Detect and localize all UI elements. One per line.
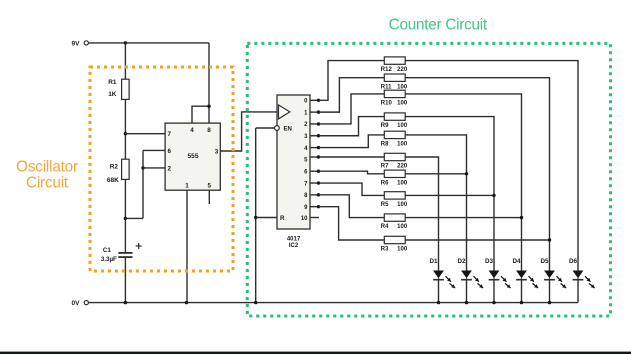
svg-text:Oscillator: Oscillator [16, 159, 78, 176]
wire output 1 to R11 [319, 78, 385, 112]
junction R4/D4 [520, 216, 523, 219]
wire pin1 to 0V [186, 190, 188, 302]
LED D5 [540, 258, 566, 302]
svg-text:220: 220 [397, 67, 408, 73]
wire pin6 [143, 149, 165, 151]
wire pin3 to clock [220, 112, 277, 151]
svg-text:2: 2 [168, 165, 172, 172]
junction 0V D2 [465, 301, 468, 304]
svg-text:100: 100 [397, 180, 408, 186]
LED D3 [485, 258, 511, 302]
wire R4 join [405, 217, 521, 219]
wire 0V rail [88, 302, 578, 304]
label Oscillator Circuit [16, 159, 78, 192]
pin 0 stub 4017 [304, 99, 318, 105]
junction EN/R [254, 216, 257, 219]
wire R3 join [405, 239, 549, 241]
svg-text:1K: 1K [108, 91, 117, 98]
svg-text:Counter Circuit: Counter Circuit [389, 17, 488, 34]
junction output 8 [317, 193, 320, 196]
wire pin5 stub [208, 190, 210, 204]
svg-text:D6: D6 [569, 258, 578, 265]
svg-text:R3: R3 [381, 247, 389, 253]
node 0V terminal [72, 300, 89, 307]
junction 0V pin1 [185, 301, 188, 304]
junction output 1 [317, 110, 320, 113]
wire feedback vertical [142, 150, 144, 218]
svg-text:EN: EN [284, 127, 292, 133]
svg-text:IC2: IC2 [289, 243, 299, 249]
junction pin2 node [141, 166, 144, 169]
svg-text:R10: R10 [381, 101, 393, 107]
svg-text:0V: 0V [72, 300, 81, 307]
svg-text:6: 6 [168, 148, 172, 155]
svg-text:4017: 4017 [287, 236, 301, 242]
page footer bar [0, 352, 631, 354]
wire R5 join [405, 194, 494, 196]
pin 6 stub 4017 [304, 170, 318, 176]
svg-text:555: 555 [187, 153, 198, 160]
resistor R11 [381, 74, 408, 90]
wire EN/R to 0V [255, 128, 257, 303]
resistor R6 [381, 170, 408, 186]
LED D4 [512, 258, 538, 302]
wire output 3 to R9 [319, 117, 385, 136]
wire C1 to 0V [124, 257, 126, 303]
svg-text:100: 100 [397, 84, 408, 90]
junction output 4 [317, 146, 320, 149]
resistor R4 [381, 214, 408, 230]
wire 9V to R1 [124, 43, 126, 79]
svg-text:8: 8 [207, 127, 211, 134]
wire pin2 [143, 167, 165, 169]
junction 0V C1 [124, 301, 127, 304]
resistor R7 [381, 153, 408, 169]
svg-text:9V: 9V [72, 40, 81, 47]
wire pin10 stub [301, 216, 319, 222]
resistor R1 [108, 79, 129, 100]
junction output 0 [317, 99, 320, 102]
svg-text:D1: D1 [429, 258, 438, 265]
LED D6 [569, 258, 595, 302]
pin 7 stub 4017 [304, 181, 318, 187]
junction R6/D2 [465, 172, 468, 175]
junction R2/C1/feedback [124, 217, 127, 220]
resistor R9 [381, 113, 408, 129]
wire output 5 to R7 [319, 156, 385, 158]
junction pin7 node [124, 132, 127, 135]
op-amp U1 555 timer [165, 123, 220, 190]
wire R6 join [405, 173, 466, 175]
EN inverter bubble [275, 126, 280, 131]
pin 1 stub 4017 [304, 110, 318, 116]
svg-text:Circuit: Circuit [26, 175, 69, 192]
junction output 6 [317, 170, 320, 173]
junction R3/D5 [548, 238, 551, 241]
wire R11 to D5 column [405, 78, 549, 271]
pin 5 stub 4017 [304, 157, 318, 164]
junction 0V ENR [254, 301, 257, 304]
svg-text:D2: D2 [457, 258, 466, 265]
junction R5/D3 [492, 194, 495, 197]
wire R12 to D6 column [405, 61, 578, 271]
svg-text:3.3µF: 3.3µF [101, 256, 117, 263]
clock input triangle [279, 105, 290, 119]
wire 9V rail [88, 42, 209, 44]
svg-text:R9: R9 [381, 123, 389, 129]
pin 3 stub 4017 [304, 134, 318, 140]
wire R7 to D1 column [405, 157, 438, 271]
junction 0V D4 [520, 301, 523, 304]
wire R8 to D2 column [405, 135, 466, 271]
wire R1 to R2 [124, 99, 126, 159]
svg-text:7: 7 [168, 131, 172, 138]
wire output 4 to R8 [319, 135, 385, 148]
svg-text:D5: D5 [540, 258, 549, 265]
wire R2 to C1 [124, 179, 126, 252]
wire output 9 to R3 [319, 207, 385, 240]
resistor R3 [381, 236, 408, 252]
svg-text:100: 100 [397, 101, 408, 107]
junction 9V/R1 [124, 41, 127, 44]
wire output 8 to R4 [319, 195, 385, 218]
wire EN [256, 127, 275, 129]
counter circuit boundary [247, 43, 610, 316]
capacitor C1 [101, 243, 142, 263]
wire output 6 to R6 [319, 171, 385, 174]
svg-text:R11: R11 [381, 84, 392, 90]
wire 555 pin8 drop [208, 43, 210, 123]
svg-text:3: 3 [215, 149, 219, 156]
wire R10 to D4 column [405, 94, 521, 271]
oscillator circuit boundary [90, 67, 233, 271]
svg-text:100: 100 [397, 142, 408, 148]
resistor R10 [381, 90, 408, 106]
svg-text:R5: R5 [381, 202, 389, 208]
svg-text:C1: C1 [103, 247, 111, 254]
svg-text:D3: D3 [485, 258, 494, 265]
wire R9 to D3 column [405, 117, 494, 271]
svg-text:R2: R2 [110, 163, 119, 170]
junction output 5 [317, 155, 320, 158]
svg-text:100: 100 [397, 224, 408, 230]
svg-text:D4: D4 [512, 258, 521, 265]
junction output 7 [317, 181, 320, 184]
LED D2 [457, 258, 483, 302]
wire pin4-pin8 link [192, 106, 209, 123]
wire feedback horizontal [125, 217, 143, 219]
svg-text:100: 100 [397, 202, 408, 208]
svg-text:R12: R12 [381, 67, 393, 73]
pin 8 stub 4017 [304, 193, 318, 199]
wire output 0 to R12 [319, 61, 385, 101]
pin 2 stub 4017 [304, 122, 318, 128]
resistor R2 [107, 159, 129, 184]
junction output 3 [317, 134, 320, 137]
svg-text:68K: 68K [107, 177, 119, 184]
label Counter Circuit [389, 17, 488, 34]
svg-text:R4: R4 [381, 224, 389, 230]
svg-text:1: 1 [185, 183, 189, 190]
junction output 9 [317, 205, 320, 208]
junction output 2 [317, 122, 320, 125]
wire pin7 [125, 133, 165, 135]
pin 9 stub 4017 [304, 205, 318, 211]
pin 4 stub 4017 [304, 146, 318, 152]
svg-text:R: R [280, 215, 285, 222]
svg-text:100: 100 [397, 123, 408, 129]
svg-text:R7: R7 [381, 164, 389, 170]
resistor R12 [381, 57, 408, 73]
svg-text:R6: R6 [381, 180, 389, 186]
svg-text:100: 100 [397, 247, 408, 253]
junction 0V D1 [437, 301, 440, 304]
node 9V terminal [72, 40, 89, 47]
resistor R5 [381, 192, 408, 208]
svg-text:R1: R1 [108, 79, 117, 86]
junction 0V D3 [492, 301, 495, 304]
resistor R8 [381, 131, 408, 147]
svg-text:R8: R8 [381, 142, 389, 148]
svg-text:5: 5 [208, 183, 212, 190]
wire output 7 to R5 [319, 183, 385, 195]
op-amp U2 4017 counter [277, 95, 310, 249]
junction 0V D5 [548, 301, 551, 304]
svg-text:220: 220 [397, 164, 408, 170]
junction pin4/pin8 [207, 105, 210, 108]
wire output 2 to R10 [319, 94, 385, 124]
wire R pin [256, 217, 277, 219]
svg-text:4: 4 [190, 127, 194, 134]
LED D1 [429, 258, 455, 302]
svg-text:10: 10 [301, 216, 308, 222]
